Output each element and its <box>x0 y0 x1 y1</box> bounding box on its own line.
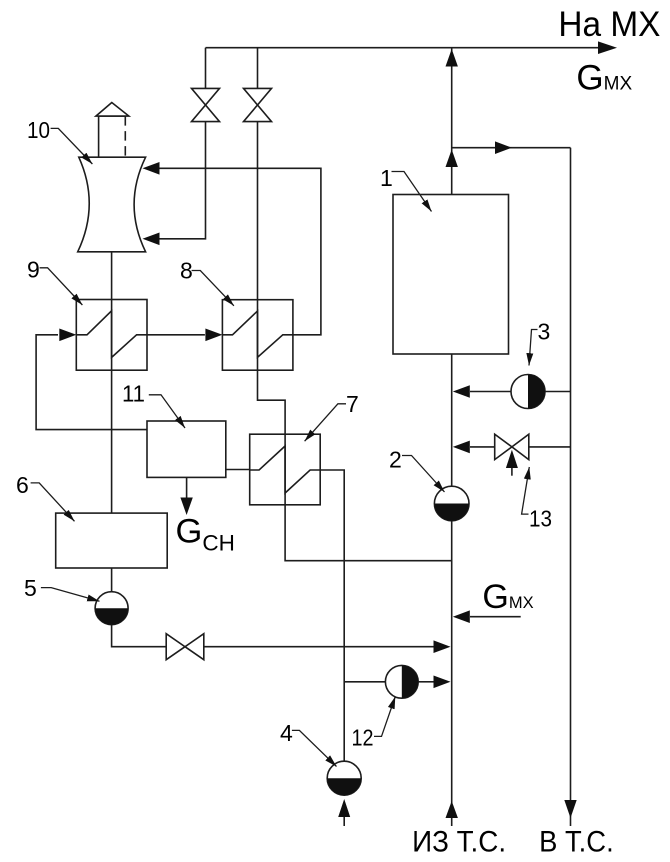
valve 13 <box>495 434 529 459</box>
wire box6 to pump 5 <box>111 568 113 592</box>
wire valve stem upper left <box>205 48 207 89</box>
wire pump5 down and right to main <box>112 625 434 647</box>
wire main line pump2 down to bottom <box>451 521 453 826</box>
pump 4 <box>327 761 361 795</box>
box 11 <box>147 421 226 477</box>
wire pump3 right <box>545 391 571 393</box>
svg-text:5: 5 <box>24 575 37 601</box>
leader 10 <box>51 128 93 164</box>
wire pump3 left to main <box>470 391 511 393</box>
leader 5 <box>41 588 100 602</box>
wire valve stem upper right <box>257 48 259 89</box>
wire 11 down G_CH <box>186 477 188 499</box>
apparatus 1 <box>393 195 509 355</box>
pump4 inlet arrow <box>343 817 345 826</box>
heat exchanger 7 <box>250 434 321 505</box>
wire pump12 to main <box>418 681 434 683</box>
leader 8 <box>192 271 234 306</box>
svg-text:На МХ: На МХ <box>558 5 660 44</box>
arrow G_CH down <box>180 498 192 516</box>
arrow into main at 648 <box>434 640 451 653</box>
leader 3 <box>529 330 538 366</box>
wire pump4 line to pump12 <box>344 681 385 683</box>
wire HX7 right to pump 4 <box>320 470 344 761</box>
wire HX7 bottom to main line <box>285 505 452 561</box>
cooling tower 10 <box>78 103 146 252</box>
wire HX8 bottom jog to HX7 <box>258 370 286 434</box>
wire 11 to 9 (left loop) <box>36 335 147 430</box>
svg-text:12: 12 <box>352 724 374 750</box>
wire valve1 down to tower lower <box>159 122 206 239</box>
wire branch to right drop <box>452 147 571 149</box>
leader 9 <box>40 268 83 305</box>
svg-text:7: 7 <box>346 391 359 417</box>
leader 12 <box>374 697 395 737</box>
svg-text:8: 8 <box>180 258 193 284</box>
arrow into tower upper <box>143 162 160 175</box>
arrow into HX8 <box>205 329 222 342</box>
svg-text:1: 1 <box>380 165 393 191</box>
wire valve13 right <box>529 446 571 448</box>
valve top 1 <box>192 88 220 121</box>
wire G_MX mid arrow <box>470 616 521 618</box>
arrow into main from valve13 <box>453 441 470 454</box>
leader 4 <box>292 730 337 766</box>
arrow up at IZ T.C. <box>446 801 458 818</box>
wire 9 to 8 <box>147 334 205 336</box>
arrow into main from pump3 <box>453 385 470 398</box>
leader 6 <box>31 483 75 521</box>
arrow up at branch tee <box>446 150 458 168</box>
svg-text:13: 13 <box>529 506 552 532</box>
arrow down at B T.C. <box>564 800 576 818</box>
svg-text:3: 3 <box>538 319 551 345</box>
arrow to Na MX <box>598 41 617 54</box>
wire HX8 right to tower upper <box>159 168 321 334</box>
leader 7 <box>305 404 346 441</box>
wire main line box1 to pump2 <box>451 354 453 486</box>
valve top 2 <box>244 88 272 121</box>
svg-text:4: 4 <box>280 720 293 746</box>
arrow right on branch <box>495 141 512 154</box>
wire valve2 down through HX8 <box>257 122 259 300</box>
leader 13 <box>522 467 530 514</box>
pump 3 <box>511 375 545 409</box>
wire top header line <box>206 47 601 49</box>
arrow up below header <box>446 49 458 67</box>
wire main riser <box>451 48 453 195</box>
wire right drop line <box>570 148 572 826</box>
pump 5 <box>95 592 128 625</box>
svg-text:11: 11 <box>122 381 145 407</box>
wire valve13 left to main <box>470 446 495 448</box>
leader 1 <box>392 172 432 212</box>
svg-text:10: 10 <box>27 117 50 143</box>
arrow into tower lower <box>143 233 160 246</box>
svg-text:9: 9 <box>27 256 40 282</box>
arrow into HX9 <box>59 329 76 342</box>
valve13 actuator arrow <box>511 468 513 476</box>
box 6 <box>56 513 168 568</box>
leader 2 <box>402 456 445 493</box>
heat exchanger 8 <box>222 300 293 371</box>
pump 2 <box>434 486 469 521</box>
svg-text:В Т.С.: В Т.С. <box>539 825 614 858</box>
svg-text:6: 6 <box>16 472 29 498</box>
svg-text:2: 2 <box>389 447 402 473</box>
svg-text:ИЗ Т.С.: ИЗ Т.С. <box>412 825 506 858</box>
pump 12 <box>385 665 418 698</box>
valve mid <box>166 634 204 660</box>
wire tower down through HX9 to box 6 <box>111 252 113 513</box>
heat exchanger 9 <box>76 300 147 371</box>
leader 11 <box>149 395 185 428</box>
wire 11 to 7 <box>226 469 250 471</box>
